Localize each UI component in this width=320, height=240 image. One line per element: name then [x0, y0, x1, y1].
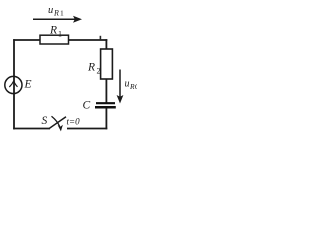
arrow for u_R1 (points right)	[33, 16, 82, 23]
wire left vertical	[13, 39, 15, 129]
capacitor C plates	[95, 103, 116, 107]
source E circle	[5, 76, 22, 93]
svg-text:1: 1	[60, 9, 64, 18]
resistor R2	[101, 49, 113, 79]
small scan tick above wire	[100, 36, 102, 40]
svg-text:R: R	[87, 62, 95, 74]
svg-text:t=0: t=0	[67, 117, 81, 127]
label R1	[49, 25, 62, 39]
arrow for u_RC (points down)	[117, 70, 124, 104]
svg-text:R: R	[53, 9, 59, 18]
resistor R1	[40, 35, 69, 44]
wire top-right segment	[69, 39, 108, 41]
wire right vertical upper	[105, 39, 107, 49]
svg-text:S: S	[42, 115, 48, 127]
svg-text:2: 2	[97, 67, 101, 76]
svg-text:E: E	[24, 79, 32, 91]
switch S motion arrow	[52, 116, 63, 131]
svg-text:RC: RC	[129, 82, 137, 91]
label u_RC	[125, 79, 141, 92]
label R2	[87, 62, 101, 76]
svg-text:u: u	[125, 79, 130, 90]
wire right vertical middle (R2 to C)	[105, 79, 107, 103]
svg-text:C: C	[83, 100, 91, 112]
wire bottom-right segment	[67, 128, 107, 130]
label u_R1	[48, 5, 64, 18]
svg-text:u: u	[48, 5, 53, 16]
switch S blade	[50, 117, 67, 128]
wire top-left segment	[13, 39, 40, 41]
source E arrowhead inside	[9, 81, 17, 87]
wire right vertical lower (C to bottom)	[105, 108, 107, 129]
svg-text:1: 1	[58, 30, 62, 39]
wire bottom-left segment	[13, 128, 50, 130]
